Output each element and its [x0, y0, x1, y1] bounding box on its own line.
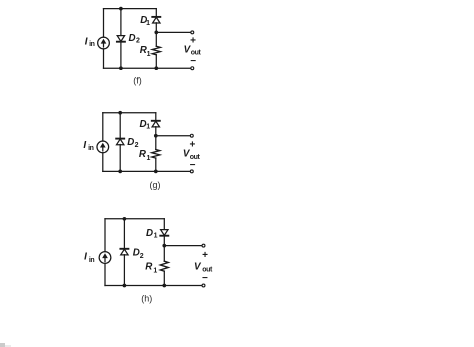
svg-text:−: −	[190, 56, 196, 67]
wire: (g) top rail	[103, 112, 156, 114]
node: (f) top mid junction	[119, 7, 123, 11]
node: (f) D1-R1 junction	[154, 31, 158, 35]
label R1 (g)	[139, 149, 151, 162]
svg-text:D: D	[146, 228, 153, 239]
diode D1 (f), cathode up	[152, 17, 160, 23]
node: (f) bottom right junction	[154, 66, 158, 70]
diode D2 (g), cathode up	[116, 139, 124, 145]
svg-text:−: −	[202, 273, 208, 284]
resistor R1 (g) zigzag	[152, 150, 160, 159]
svg-text:+: +	[190, 36, 196, 47]
label &#8722; (f)	[190, 56, 196, 67]
caption (g)	[150, 180, 161, 190]
label V_out (g)	[183, 149, 201, 162]
label D1 (h)	[146, 228, 158, 239]
label D1 (g)	[140, 119, 151, 131]
caption (h)	[141, 294, 152, 304]
svg-text:I: I	[85, 37, 88, 48]
current source I_in (g)	[97, 141, 109, 153]
wire: (g) left branch upper	[102, 113, 104, 141]
label D2 (f)	[129, 33, 141, 45]
wire: (h) right branch lower	[163, 271, 165, 285]
node: (f) bottom mid junction	[119, 66, 123, 70]
wire: (f) bottom rail	[104, 67, 191, 69]
node: (h) top mid junction	[123, 217, 127, 221]
wire: (h) left branch lower	[104, 263, 106, 285]
wire: (f) right branch lower	[155, 55, 157, 68]
current source I_in (h)	[99, 252, 111, 264]
resistor R1 (f) zigzag	[152, 46, 160, 55]
wire: (f) right branch mid lead	[155, 23, 157, 47]
svg-text:in: in	[89, 41, 95, 48]
current source I_in (f)	[98, 37, 110, 49]
svg-text:(h): (h)	[141, 294, 152, 304]
wire: (f) left branch lower	[103, 49, 105, 68]
terminal: (f) output -	[191, 67, 194, 70]
node: (g) bottom right junction	[154, 170, 158, 174]
node: (h) bottom mid junction	[123, 284, 127, 288]
resistor R1 (h) zigzag	[160, 261, 168, 271]
label + (g)	[189, 139, 195, 150]
wire: (h) bottom rail	[105, 285, 202, 287]
wire: (g) left branch lower	[102, 153, 104, 172]
wire: (h) top rail	[105, 218, 164, 220]
svg-text:−: −	[190, 160, 196, 171]
wire: (f) right branch top lead	[155, 9, 157, 17]
caption (f)	[133, 76, 142, 86]
svg-text:I: I	[83, 140, 86, 151]
svg-text:+: +	[189, 139, 195, 150]
svg-text:D: D	[127, 137, 134, 148]
svg-text:1: 1	[146, 124, 150, 131]
terminal: (h) output -	[202, 284, 205, 287]
label I_in (h)	[84, 251, 94, 263]
label D1 (f)	[140, 15, 150, 27]
wire: (g) output plus lead	[156, 135, 190, 137]
wire: (h) output plus lead	[164, 245, 201, 247]
node: (h) bottom right junction	[162, 284, 166, 288]
node: (h) D1-R1 junction	[162, 244, 166, 248]
wire: (h) right branch top lead	[163, 219, 165, 230]
svg-text:1: 1	[154, 232, 158, 239]
wire: (g) right branch top lead	[155, 113, 157, 121]
wire: (g) middle branch lower	[119, 145, 121, 172]
label I_in (g)	[83, 140, 93, 152]
label D2 (g)	[127, 137, 138, 149]
label &#8722; (h)	[202, 273, 208, 284]
svg-text:D: D	[129, 33, 136, 44]
svg-text:2: 2	[140, 253, 144, 260]
diode D1 (g), cathode up	[152, 121, 160, 127]
terminal: (g) output -	[190, 170, 193, 173]
svg-text:1: 1	[153, 268, 157, 275]
wire: (h) middle branch lower	[123, 255, 125, 286]
wire: (f) left branch upper	[103, 9, 105, 38]
node: (g) bottom mid junction	[118, 170, 122, 174]
label V_out (h)	[194, 261, 213, 273]
svg-text:V: V	[194, 261, 202, 272]
svg-text:1: 1	[146, 20, 150, 27]
svg-text:I: I	[84, 251, 87, 262]
terminal: (g) output +	[190, 134, 193, 137]
wire: (f) middle branch upper	[120, 9, 122, 36]
node: (g) top mid junction	[118, 111, 122, 115]
diode D1 (h), cathode down	[160, 230, 168, 236]
svg-text:R: R	[145, 261, 153, 272]
label R1 (h)	[145, 261, 157, 274]
svg-text:1: 1	[147, 155, 151, 162]
label + (h)	[202, 250, 208, 261]
page-edge smudge bottom-left	[0, 343, 11, 347]
wire: (f) middle branch lower	[120, 42, 122, 68]
wire: (f) top rail	[104, 8, 157, 10]
svg-text:in: in	[88, 145, 94, 152]
node: (g) D1-R1 junction	[154, 134, 158, 138]
terminal: (h) output +	[202, 244, 205, 247]
svg-text:(g): (g)	[150, 180, 161, 190]
label D2 (h)	[133, 247, 144, 260]
label I_in (f)	[85, 37, 95, 49]
wire: (h) right branch mid lead	[163, 236, 165, 262]
svg-text:2: 2	[136, 38, 140, 45]
terminal: (f) output +	[191, 31, 194, 34]
label &#8722; (g)	[190, 160, 196, 171]
wire: (g) middle branch upper	[119, 113, 121, 139]
wire: (g) bottom rail	[103, 170, 190, 172]
wire: (h) left branch upper	[104, 219, 106, 252]
diode D2 (h), cathode up	[120, 249, 128, 255]
svg-text:(f): (f)	[133, 76, 142, 86]
wire: (g) right branch lower	[155, 158, 157, 171]
svg-text:+: +	[202, 250, 208, 261]
wire: (h) middle branch upper	[123, 219, 125, 249]
diode D2 (f), cathode down	[117, 36, 125, 42]
svg-text:1: 1	[147, 51, 151, 58]
label + (f)	[190, 36, 196, 47]
wire: (g) right branch mid lead	[155, 127, 157, 150]
label R1 (f)	[140, 45, 151, 58]
wire: (f) output plus lead	[156, 31, 190, 33]
svg-text:in: in	[89, 257, 95, 264]
label V_out (f)	[184, 45, 202, 57]
